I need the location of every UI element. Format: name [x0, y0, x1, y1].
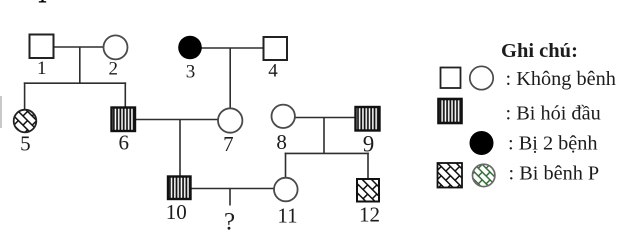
svg-text:8: 8: [276, 130, 287, 154]
legend bald striped square: [439, 99, 462, 123]
svg-text:1: 1: [37, 58, 47, 79]
svg-text:Ghi chú:: Ghi chú:: [501, 40, 578, 62]
wire: couple line 1-2: [53, 46, 104, 48]
legend unaffected square: [441, 68, 461, 89]
svg-text:9: 9: [363, 132, 375, 157]
legend disease-P crosshatched circle: [473, 164, 495, 186]
wire: couple line 3-4: [201, 47, 264, 49]
wire: drop to 5: [24, 82, 26, 110]
svg-text:?: ?: [224, 209, 235, 236]
svg-text:2: 2: [109, 58, 119, 79]
svg-text:5: 5: [20, 132, 31, 156]
wire: drop to 11: [285, 153, 287, 179]
svg-text:12: 12: [359, 203, 380, 227]
individual 1: unaffected male square: [30, 35, 54, 59]
individual 8: unaffected female circle: [272, 105, 295, 128]
wire: couple line 6-7: [135, 119, 219, 121]
svg-text:: Bị 2 bệnh: : Bị 2 bệnh: [508, 133, 598, 155]
individual 6: bald male striped square: [112, 108, 136, 132]
wire: sibling bar generation III right: [285, 152, 369, 154]
individual 5: disease-P female crosshatched circle: [14, 110, 37, 133]
svg-text:11: 11: [277, 204, 297, 228]
wire: drop to 6: [124, 82, 126, 108]
legend unaffected circle: [470, 66, 493, 89]
legend affected-both filled circle: [470, 131, 494, 155]
individual 2: unaffected female circle: [104, 35, 128, 59]
wire: drop from couple 8-9: [323, 118, 325, 154]
wire: couple line 10-11: [191, 188, 275, 190]
individual 9: bald male striped square: [356, 107, 380, 131]
individual 12: disease-P male crosshatched square: [357, 179, 379, 202]
legend disease-P crosshatched square: [438, 163, 463, 188]
cut-off text fragment top-left: [39, 0, 46, 3]
individual 7: unaffected female circle: [218, 108, 242, 132]
individual 4: unaffected male square: [264, 37, 288, 60]
wire: drop to 12: [367, 153, 369, 180]
svg-text:: Không bênh: : Không bênh: [506, 68, 616, 90]
svg-text:4: 4: [268, 61, 278, 82]
individual 3: affected-both female filled circle: [178, 36, 202, 60]
wire: sibling bar generation II left: [24, 82, 126, 84]
svg-text:6: 6: [119, 131, 130, 155]
wire: couple line 8-9: [295, 117, 357, 119]
svg-text:3: 3: [186, 61, 196, 82]
svg-text:: Bi bênh P: : Bi bênh P: [509, 163, 600, 185]
svg-text:10: 10: [166, 200, 187, 224]
wire: drop from couple 3-4 to 7: [229, 48, 231, 110]
individual 10: bald male striped square: [168, 177, 191, 200]
individual 11: unaffected female circle: [274, 178, 298, 202]
faint left-edge artifact line: [0, 96, 2, 128]
wire: drop from couple 6-7 to 10: [179, 120, 181, 178]
wire: unknown-child tick: [229, 189, 231, 206]
svg-text:7: 7: [223, 132, 234, 156]
wire: drop from couple 1-2: [79, 47, 81, 83]
svg-text:: Bi hói đầu: : Bi hói đầu: [506, 103, 601, 125]
